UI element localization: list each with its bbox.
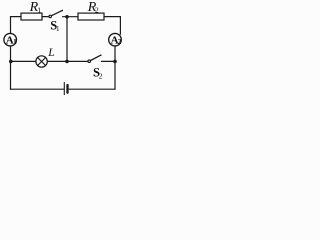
node J1: junction of S1, R2 and middle branch xyxy=(65,15,69,19)
wire: lamp L to node J2 xyxy=(47,60,67,62)
svg-text:2: 2 xyxy=(118,38,122,46)
node J2: junction of middle branch with lamp/S2 row xyxy=(65,60,69,64)
A1 label xyxy=(6,35,17,47)
wire: ammeter A2 down the right rail to bottom-right corner xyxy=(114,46,116,89)
switch S1 blade (open) xyxy=(52,10,63,15)
S2 label xyxy=(93,66,103,81)
resistor R1 xyxy=(21,13,42,20)
R2 label xyxy=(87,0,99,15)
node J4: junction of S2 row with right rail xyxy=(113,60,117,64)
L label xyxy=(47,47,54,59)
wire: node J3 to lamp L xyxy=(11,60,36,62)
switch S1 pivot xyxy=(49,15,52,18)
svg-text:1: 1 xyxy=(56,24,60,33)
wire: ammeter A1 down left rail to bottom-left corner xyxy=(10,46,12,89)
svg-text:L: L xyxy=(47,47,54,59)
resistor R2 xyxy=(78,13,104,20)
wire: S1 fixed contact to node J1 xyxy=(63,16,67,18)
A2 label xyxy=(111,35,122,47)
svg-text:1: 1 xyxy=(13,38,17,46)
wire: left rail, top-left corner down to ammeter A1 xyxy=(10,17,12,34)
node J3: junction of lamp row with left rail xyxy=(9,60,13,64)
wire: R2 right terminal to top-right corner, down to ammeter A2 xyxy=(104,17,120,35)
svg-text:1: 1 xyxy=(37,6,41,15)
R1 label xyxy=(29,0,42,15)
wire: R1 right terminal to switch S1 pivot xyxy=(42,16,49,18)
wire: S2 fixed contact to node J4 xyxy=(102,60,116,62)
lamp L body xyxy=(36,56,47,67)
wire: bottom rail, bottom-left corner to battery positive plate xyxy=(11,88,65,90)
S1 label xyxy=(50,19,60,34)
wire: battery negative plate to bottom-right corner xyxy=(69,88,115,90)
wire: middle branch, node J1 down to node J2 xyxy=(66,17,68,62)
svg-text:2: 2 xyxy=(95,5,99,14)
wire: top rail, top-left corner to R1 left terminal xyxy=(11,16,22,18)
ammeter A1 body xyxy=(4,33,17,46)
battery negative plate (short, thick) xyxy=(66,85,68,93)
wire: node J2 to switch S2 pivot xyxy=(67,60,88,62)
switch S2 blade (open) xyxy=(91,55,101,60)
ammeter A2 body xyxy=(109,33,122,46)
svg-text:2: 2 xyxy=(99,71,103,80)
battery positive plate (long) xyxy=(63,83,65,95)
wire: node J1 to R2 left terminal xyxy=(67,16,78,18)
lamp L cross xyxy=(38,58,46,66)
switch S1 blade tip contact xyxy=(62,10,64,12)
switch S2 blade tip contact xyxy=(100,55,102,57)
switch S2 pivot xyxy=(88,60,91,63)
